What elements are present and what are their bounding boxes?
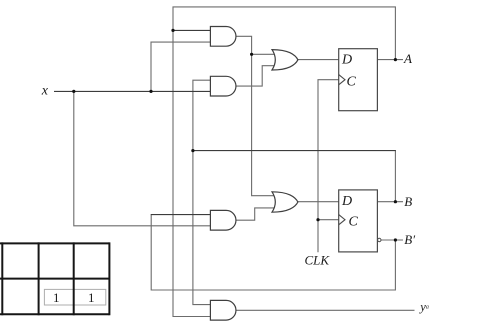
svg-text:A: A xyxy=(403,51,412,66)
svg-text:x: x xyxy=(41,84,49,99)
svg-text:C: C xyxy=(349,215,359,230)
svg-text:C: C xyxy=(347,75,357,90)
svg-text:B: B xyxy=(404,194,412,209)
svg-text:D: D xyxy=(341,194,352,209)
svg-text:1: 1 xyxy=(53,290,60,305)
svg-text:ya: ya xyxy=(418,300,429,314)
svg-text:D: D xyxy=(341,53,352,68)
svg-text:B′: B′ xyxy=(404,232,415,247)
svg-text:1: 1 xyxy=(88,290,95,305)
svg-text:CLK: CLK xyxy=(305,252,331,267)
